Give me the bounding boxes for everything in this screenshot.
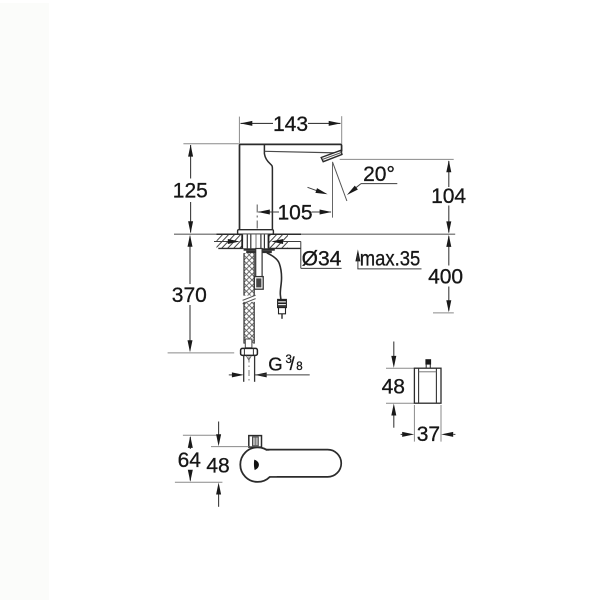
sensor dot <box>254 460 259 471</box>
dim 64 <box>178 436 202 482</box>
dim 48 box <box>382 342 405 428</box>
cable connector <box>278 299 287 313</box>
aerator <box>321 150 342 161</box>
deck top line <box>174 233 455 235</box>
svg-text:64: 64 <box>178 449 202 472</box>
dim 104 extension line <box>340 158 454 160</box>
dim 400 <box>428 235 463 312</box>
svg-text:48: 48 <box>382 376 405 399</box>
svg-text:400: 400 <box>428 265 463 288</box>
svg-text:/: / <box>290 354 295 374</box>
left background tint band <box>0 3 49 600</box>
svg-text:max.35: max.35 <box>360 247 421 270</box>
faucet body outline <box>240 144 342 234</box>
dim 48 lever <box>206 422 229 507</box>
outlet extension line <box>332 162 334 218</box>
solenoid stem <box>256 249 262 277</box>
svg-text:125: 125 <box>173 180 208 203</box>
footprint lever <box>266 450 341 477</box>
sensor cable <box>267 253 282 299</box>
threaded pipe G3/8 <box>244 356 255 382</box>
dim 104 <box>431 160 466 233</box>
svg-text:370: 370 <box>172 284 207 307</box>
control box knob <box>425 359 431 368</box>
dim 37 <box>401 405 456 446</box>
dim 20 deg leader <box>308 163 398 195</box>
control box extension lines <box>386 368 414 403</box>
spout underside line <box>265 151 337 153</box>
mounting shank <box>242 234 269 248</box>
connector wire <box>281 314 283 319</box>
svg-text:143: 143 <box>273 113 308 136</box>
svg-text:48: 48 <box>206 454 229 477</box>
footprint lever white join <box>267 451 277 476</box>
label G 3/8 <box>268 353 302 374</box>
sensor window <box>249 436 262 448</box>
dim 105 <box>258 202 332 225</box>
water stream line <box>333 162 347 201</box>
braided hose lower <box>244 302 254 344</box>
pipe centerline <box>248 357 250 381</box>
svg-text:8: 8 <box>296 361 302 373</box>
deck hatching <box>209 234 301 249</box>
dim 64 extension lines <box>175 435 223 482</box>
escutcheon <box>238 230 274 235</box>
dim 400 extension line <box>433 312 454 314</box>
faucet front edge and curve <box>264 144 272 234</box>
hose nut <box>241 348 258 355</box>
dim G3/8 arrows <box>229 372 310 377</box>
braided hose upper <box>244 253 254 296</box>
hose break symbol <box>243 295 256 304</box>
svg-text:104: 104 <box>431 185 466 208</box>
svg-text:Ø34: Ø34 <box>302 247 342 270</box>
dim 370 <box>172 235 207 352</box>
footprint body circle <box>240 447 275 482</box>
dim 125 <box>173 145 208 234</box>
svg-text:37: 37 <box>417 423 440 446</box>
solenoid box <box>254 277 263 290</box>
dim 48 extension line <box>211 446 249 448</box>
svg-text:G: G <box>268 353 282 374</box>
locknut <box>246 251 272 253</box>
dim 125 extension line <box>183 143 238 145</box>
hose end fitting <box>245 339 252 348</box>
deck bottom line <box>218 247 301 249</box>
svg-text:20°: 20° <box>363 163 395 186</box>
dim 370 extension line <box>168 352 235 354</box>
dim max 35 <box>355 247 421 270</box>
control box <box>414 368 441 403</box>
dim 143 extension lines <box>239 116 341 144</box>
dim 143 <box>240 113 340 136</box>
faucet centerline <box>256 205 258 251</box>
washer below deck <box>244 249 275 251</box>
svg-text:105: 105 <box>277 202 312 225</box>
dim diameter 34 <box>214 239 342 270</box>
